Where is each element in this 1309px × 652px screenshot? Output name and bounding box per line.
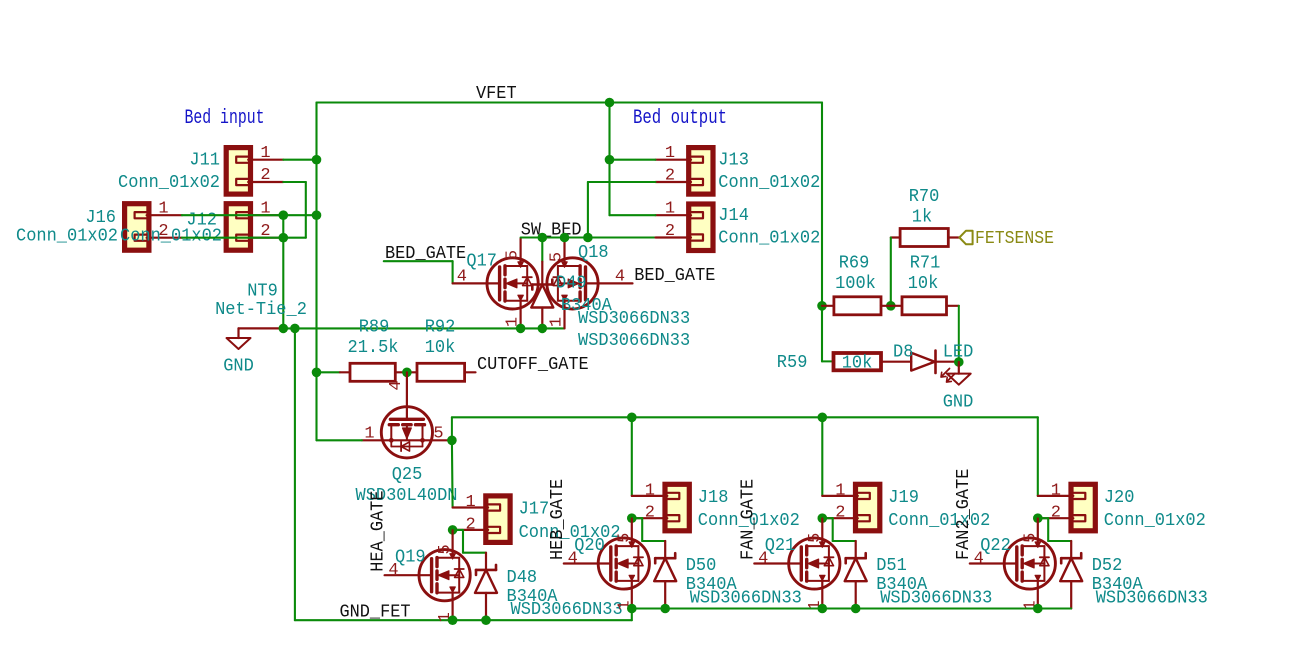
resistor R92 [417, 363, 465, 381]
svg-text:Conn_01x02: Conn_01x02 [718, 229, 820, 249]
label CUTOFF_GATE [477, 354, 589, 375]
svg-text:1: 1 [547, 317, 566, 327]
value Conn_01x02 of J19 [888, 511, 990, 531]
svg-text:D52: D52 [1092, 556, 1123, 576]
pin 2 of J19 [835, 504, 845, 523]
junction bus at J19 [818, 413, 828, 423]
label GND_FET [340, 602, 411, 623]
value LED of D8 [943, 343, 974, 363]
wire net-tie down to GND_FET bus [294, 328, 296, 620]
pin 5 of Q20 [615, 533, 634, 543]
value Conn_01x02 of J11 [118, 173, 220, 193]
connector J17 [453, 496, 510, 543]
connector J11 [226, 148, 251, 195]
value Conn_01x02 of J18 [698, 511, 800, 531]
value 1k of R70 [912, 208, 932, 228]
junction J19.2 / Q21 drain [818, 513, 828, 523]
label Q19 [395, 548, 426, 568]
pin 1 of J16 [149, 200, 182, 219]
svg-text:R92: R92 [425, 318, 456, 338]
label J14 [718, 206, 749, 226]
pin 5 of Q21 [806, 533, 825, 543]
svg-text:D51: D51 [876, 556, 907, 576]
wire J13.2 elbow [588, 182, 656, 238]
transistor Q21 [754, 519, 840, 609]
pin 2 of J18 [645, 504, 655, 523]
label BED_GATE right [634, 265, 715, 286]
junction bus at J18 [627, 413, 637, 423]
junction J18.2 / Q20 drain [627, 513, 637, 523]
svg-text:CUTOFF_GATE: CUTOFF_GATE [477, 354, 589, 375]
transistor Q17 [453, 238, 539, 328]
pin 4 of Q21 [758, 550, 768, 569]
svg-text:2: 2 [835, 504, 845, 523]
value WSD3066DN33 of Q21 [880, 589, 992, 609]
svg-text:10k: 10k [425, 338, 456, 358]
svg-text:WSD3066DN33: WSD3066DN33 [511, 600, 623, 620]
label J13 [718, 151, 749, 171]
label GND left [223, 357, 254, 377]
pin 1 of J18 [645, 481, 655, 500]
junction VFET vertical at R89 [312, 368, 322, 378]
value B340A of D52 [1092, 575, 1143, 595]
label J11 [189, 151, 220, 171]
pin 1 of J17 [465, 493, 475, 512]
pin 1 of J12 [251, 200, 284, 219]
label Q20 [574, 536, 605, 556]
junction D49 cathode [538, 233, 548, 243]
value WSD3066DN33 of Q18 [578, 331, 690, 351]
svg-text:2: 2 [665, 167, 675, 186]
wire J12.1 to VFET vertical [283, 214, 316, 216]
junction VFET drop at R69 [817, 301, 827, 311]
svg-text:WSD3066DN33: WSD3066DN33 [690, 589, 802, 609]
pin 5 of Q18 [547, 252, 566, 262]
junction VFET at bed-output drop [605, 98, 615, 108]
pin 5 of Q17 [504, 250, 523, 260]
wire bus drop to J20.1 [1037, 417, 1039, 496]
svg-text:WSD3066DN33: WSD3066DN33 [578, 331, 690, 351]
transistor Q20 [564, 519, 650, 609]
svg-text:Conn_01x02: Conn_01x02 [120, 227, 222, 247]
junction D8/LED/R71 [954, 357, 964, 367]
svg-text:21.5k: 21.5k [348, 338, 399, 358]
wire pin1-pin2 tie vertical [282, 215, 284, 238]
pin 2 of J12 [251, 222, 284, 241]
svg-text:FAN_GATE: FAN_GATE [737, 479, 758, 560]
label Q25 [392, 465, 423, 485]
connector J16 [125, 204, 150, 251]
svg-text:Q25: Q25 [392, 465, 423, 485]
label Q17 [466, 252, 497, 272]
value 100k of R69 [835, 274, 876, 294]
svg-text:Conn_01x02: Conn_01x02 [118, 173, 220, 193]
junction Q17 source [516, 324, 526, 334]
wire GND_FET bus right [632, 607, 1071, 609]
diode D51 [845, 541, 867, 609]
resistor R69 [834, 297, 881, 315]
svg-text:Bed input: Bed input [185, 107, 265, 130]
pin 1 of Q25 [364, 425, 374, 444]
transistor Q22 [970, 519, 1056, 609]
svg-text:2: 2 [260, 166, 270, 185]
connector J20 [1038, 484, 1096, 531]
connector J18 [632, 484, 690, 531]
pin 1 of J11 [251, 144, 284, 163]
connector J13 [656, 148, 714, 195]
pin 1 of Q21 [806, 600, 825, 610]
pin 1 of Q19 [436, 612, 455, 622]
wire J11.1 to VFET vertical [283, 159, 316, 161]
value B340A of D49 [561, 296, 612, 316]
wire R71 left lead [891, 305, 902, 307]
wire J11.2 elbow [283, 182, 306, 238]
pin 5 of Q25 [433, 425, 443, 444]
svg-text:1: 1 [158, 200, 168, 219]
svg-text:D48: D48 [507, 568, 538, 588]
svg-text:GND: GND [943, 393, 974, 413]
value B340A of D51 [876, 575, 927, 595]
label J20 [1104, 488, 1135, 508]
wire J16.2 to J12 row [182, 237, 306, 239]
svg-text:1: 1 [465, 493, 475, 512]
value Conn_01x02 of J12 [120, 227, 222, 247]
pin 2 of J17 [465, 515, 475, 534]
label HEA_GATE [368, 491, 389, 572]
label J16 [85, 208, 116, 228]
value Conn_01x02 of J14 [718, 229, 820, 249]
svg-text:5: 5 [615, 533, 634, 543]
junction Q22 source [1033, 604, 1043, 614]
ground GND at LED [947, 362, 971, 385]
svg-text:R59: R59 [777, 353, 808, 373]
wire J19.2 to D51 [822, 518, 855, 541]
svg-text:5: 5 [806, 533, 825, 543]
svg-text:J14: J14 [718, 206, 749, 226]
svg-text:Bed output: Bed output [633, 107, 727, 130]
svg-text:FAN2_GATE: FAN2_GATE [953, 469, 974, 560]
connector J14 [656, 204, 714, 251]
svg-text:5: 5 [547, 252, 566, 262]
wire R70 to R69/R71 vertical [890, 238, 892, 306]
note Bed input [185, 107, 265, 130]
hierarchical label FETSENSE flag [959, 231, 972, 245]
wire Q25 drain to bus riser [452, 417, 1038, 440]
junction R69/R71/R70 [886, 301, 896, 311]
pin 4 of Q19 [388, 561, 398, 580]
pin 1 of J13 [665, 144, 675, 163]
svg-text:J16: J16 [85, 208, 116, 228]
transistor Q25 [362, 372, 452, 458]
resistor R71 [902, 297, 947, 315]
label SW_BED [521, 220, 582, 241]
svg-text:GND: GND [223, 357, 254, 377]
svg-text:Conn_01x02: Conn_01x02 [16, 227, 118, 247]
net-tie NT9 graphic [239, 327, 284, 329]
svg-text:5: 5 [504, 250, 523, 260]
wire GND_FET bus jog [631, 609, 633, 621]
svg-text:10k: 10k [908, 274, 939, 294]
svg-text:R71: R71 [910, 254, 941, 274]
value WSD3066DN33 of Q19 [511, 600, 623, 620]
svg-text:2: 2 [465, 515, 475, 534]
wire bus corner to J20 [0, 0, 1, 1]
pin 1 of Q18 [547, 317, 566, 327]
svg-text:1: 1 [835, 481, 845, 500]
wire J17.2 to D48 [453, 530, 486, 553]
value WSD3066DN33 of Q17 [578, 309, 690, 329]
pin 2 of J11 [251, 166, 284, 185]
label FAN_GATE [737, 479, 758, 560]
wire R59 to D8 [881, 361, 911, 363]
label R92 [425, 318, 456, 338]
junction Q25 drain [447, 436, 457, 446]
diode D52 [1060, 541, 1082, 609]
svg-text:10k: 10k [842, 354, 873, 374]
pin 2 of J13 [665, 167, 675, 186]
label R70 [909, 187, 940, 207]
svg-text:VFET: VFET [476, 83, 517, 104]
pin 1 of Q20 [615, 600, 634, 610]
value Net-Tie_2 [215, 300, 307, 320]
svg-text:Q19: Q19 [395, 548, 426, 568]
wire riser to J17.1 [0, 0, 1, 1]
svg-text:4: 4 [615, 268, 625, 287]
wire R70 left lead [891, 236, 900, 238]
wire R69 left lead [822, 305, 834, 307]
svg-text:WSD3066DN33: WSD3066DN33 [880, 589, 992, 609]
label R89 [359, 318, 390, 338]
svg-text:Conn_01x02: Conn_01x02 [1104, 511, 1206, 531]
svg-text:J11: J11 [189, 151, 220, 171]
wire D49 cathode [541, 238, 543, 262]
wire Q25 source to VFET vertical [317, 439, 362, 441]
value B340A of D48 [507, 587, 558, 607]
junction D49 anode [538, 324, 548, 334]
svg-text:WSD3066DN33: WSD3066DN33 [578, 309, 690, 329]
svg-text:D8: D8 [893, 343, 913, 363]
wire R71 right elbow [947, 306, 959, 362]
junction D52 anode [0, 0, 1, 1]
svg-text:4: 4 [457, 268, 467, 287]
value WSD3066DN33 of Q20 [690, 589, 802, 609]
svg-text:NT9: NT9 [247, 282, 278, 302]
pin 4 of Q17 [457, 268, 467, 287]
label J19 [888, 488, 919, 508]
wire bus drop to J18.1 [631, 417, 633, 496]
label BED_GATE left [385, 243, 466, 264]
junction J13.2 drop [583, 233, 593, 243]
pin 1 of Q22 [1021, 600, 1040, 610]
svg-text:2: 2 [1051, 504, 1061, 523]
junction R89/R92/Q25 gate [402, 368, 412, 378]
label R71 [910, 254, 941, 274]
svg-text:1: 1 [645, 481, 655, 500]
svg-text:J19: J19 [888, 488, 919, 508]
svg-text:R70: R70 [909, 187, 940, 207]
wire Q25 drain down to J17 [451, 440, 454, 507]
label D49 [556, 274, 587, 294]
svg-text:1: 1 [665, 144, 675, 163]
label D8 [893, 343, 913, 363]
junction GND row a [279, 324, 289, 334]
svg-text:R89: R89 [359, 318, 390, 338]
svg-text:100k: 100k [835, 274, 876, 294]
svg-text:Q21: Q21 [765, 536, 796, 556]
wire R70 right lead [948, 236, 959, 238]
svg-text:Q22: Q22 [980, 536, 1011, 556]
junction J17.2 / Q19 drain [448, 525, 458, 535]
svg-text:Conn_01x02: Conn_01x02 [519, 523, 621, 543]
wire SW_BED row [521, 236, 656, 238]
label VFET [476, 83, 517, 104]
svg-text:Q18: Q18 [578, 243, 609, 263]
label R69 [839, 254, 870, 274]
wire down to net-tie row [282, 238, 284, 329]
svg-text:Q20: Q20 [574, 536, 605, 556]
pin 1 of Q17 [504, 317, 523, 327]
label Q22 [980, 536, 1011, 556]
resistor R89 [350, 363, 395, 381]
pin 5 of Q22 [1021, 533, 1040, 543]
svg-text:1: 1 [1051, 481, 1061, 500]
svg-text:1: 1 [364, 425, 374, 444]
label J12 [186, 211, 217, 231]
label D52 [1092, 556, 1123, 576]
svg-text:5: 5 [436, 544, 455, 554]
svg-text:Conn_01x02: Conn_01x02 [888, 511, 990, 531]
svg-text:J20: J20 [1104, 488, 1135, 508]
label HEB_GATE [547, 479, 568, 560]
wire VFET top horizontal [317, 101, 823, 103]
corner bus at J20 [0, 0, 1, 1]
junction D48 anode [481, 615, 491, 625]
junction Q21 source [818, 604, 828, 614]
value B340A of D50 [686, 575, 737, 595]
svg-text:D49: D49 [556, 274, 587, 294]
svg-text:FETSENSE: FETSENSE [975, 228, 1054, 249]
value WSD30L40DN of Q25 [356, 486, 458, 506]
svg-text:J18: J18 [698, 488, 729, 508]
resistor R59 [834, 353, 882, 370]
svg-text:R69: R69 [839, 254, 870, 274]
value Conn_01x02 of J13 [718, 173, 820, 193]
wire BED_GATE to Q17 gate [384, 261, 453, 283]
wire J18.2 to D50 [632, 518, 665, 541]
label NT9 [247, 282, 278, 302]
svg-text:HEA_GATE: HEA_GATE [368, 491, 389, 572]
value WSD3066DN33 of Q22 [1096, 589, 1208, 609]
connector J19 [822, 484, 880, 531]
value 10k of R92 [425, 338, 456, 358]
junction D50 anode [660, 604, 670, 614]
label Q21 [765, 536, 796, 556]
svg-text:Net-Tie_2: Net-Tie_2 [215, 300, 307, 320]
svg-text:Conn_01x02: Conn_01x02 [718, 173, 820, 193]
label FAN2_GATE [953, 469, 974, 560]
junction J12.1 tee [279, 210, 289, 220]
svg-text:GND_FET: GND_FET [340, 602, 411, 623]
transistor Q18 [547, 238, 633, 328]
label FETSENSE [975, 228, 1054, 249]
wire R89-R92 [395, 371, 417, 373]
label D51 [876, 556, 907, 576]
svg-text:D50: D50 [686, 556, 717, 576]
diode D50 [654, 541, 676, 609]
transistor Q19 [385, 530, 471, 620]
svg-text:1: 1 [260, 144, 270, 163]
label J18 [698, 488, 729, 508]
wire R89 left lead [317, 371, 351, 373]
wire VFET right vertical drop to R69/R59 [821, 103, 823, 362]
pin 1 of J20 [1051, 481, 1061, 500]
pin 1 of J19 [835, 481, 845, 500]
junction J13.1 [605, 155, 615, 165]
svg-text:J13: J13 [718, 151, 749, 171]
svg-text:WSD3066DN33: WSD3066DN33 [1096, 589, 1208, 609]
junction D51 anode [851, 604, 861, 614]
pin 4 of Q22 [974, 550, 984, 569]
wire GND_FET bus left [295, 619, 632, 621]
wire J20.2 to D52 [1038, 518, 1071, 541]
junction Q19 source [448, 615, 458, 625]
junction J20.2 / Q22 drain [1033, 513, 1043, 523]
wire R69 right lead [881, 305, 891, 307]
wire J14.1 [610, 214, 656, 216]
svg-text:4: 4 [387, 380, 406, 390]
junction GND row b [290, 324, 300, 334]
value Conn_01x02 of J17 [519, 523, 621, 543]
svg-text:BED_GATE: BED_GATE [634, 265, 715, 286]
label R59 [777, 353, 808, 373]
pin 2 of J20 [1051, 504, 1061, 523]
value 21.5k of R89 [348, 338, 399, 358]
ground GND left [227, 328, 251, 349]
pin 4 of Q25 [387, 380, 406, 390]
resistor R70 [900, 229, 948, 247]
junction Q18 drain [560, 233, 570, 243]
svg-text:5: 5 [433, 425, 443, 444]
pin 5 of Q19 [436, 544, 455, 554]
diode D49 [531, 262, 553, 329]
pin 4 of Q18 [615, 268, 625, 287]
junction Q20 source [627, 604, 637, 614]
pin 2 of J14 [665, 222, 675, 241]
svg-text:5: 5 [1021, 533, 1040, 543]
connector J12 [226, 204, 251, 251]
label D50 [686, 556, 717, 576]
value 10k of R59 [842, 354, 873, 374]
diode D8 [911, 351, 959, 374]
value 10k of R71 [908, 274, 939, 294]
svg-text:2: 2 [665, 222, 675, 241]
wire R92 right lead [465, 371, 476, 373]
pin 2 of J16 [149, 222, 182, 241]
led arrows [941, 369, 955, 383]
wire VFET left vertical drop to Q25 [315, 103, 317, 441]
wire R59 left elbow [822, 360, 834, 362]
label J17 [519, 500, 550, 520]
wire GND row to Q17/Q18 sources [283, 327, 564, 329]
wire J16.1 to J12 row [182, 214, 283, 216]
diode D48 [475, 553, 497, 621]
wire bus drop to J19.1 [821, 417, 823, 496]
value Conn_01x02 of J20 [1104, 511, 1206, 531]
svg-text:HEB_GATE: HEB_GATE [547, 479, 568, 560]
svg-text:J17: J17 [519, 500, 550, 520]
svg-text:2: 2 [645, 504, 655, 523]
svg-text:1: 1 [665, 200, 675, 219]
